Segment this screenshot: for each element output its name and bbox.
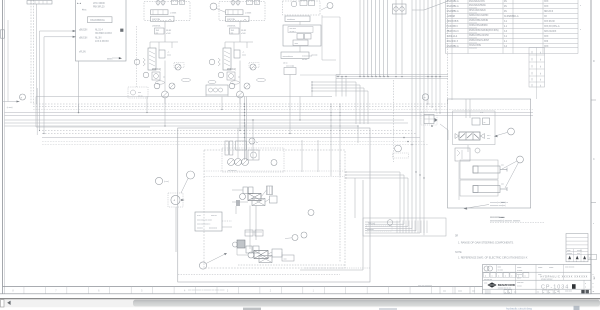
svg-text:NXX-33-3XX: NXX-33-3XX [544,31,557,33]
svg-text:xx-xxx: xx-xxx [517,274,522,276]
svg-text:xxxx xxxx: xxxx xxxx [565,291,572,293]
svg-text:xBUS1N: xBUS1N [79,38,88,40]
svg-text:▲▲: ▲▲ [77,2,82,5]
svg-text:xx: xx [540,73,542,75]
svg-text:xxxx-xxxx: xxxx-xxxx [469,17,477,19]
svg-text:xxxx-xxxx: xxxx-xxxx [469,12,477,14]
svg-text:XS4N8B1 A: XS4N8B1 A [447,10,459,13]
svg-text:xxx: xxx [532,78,534,81]
svg-text:x (xxxxxxx): x (xxxxxxx) [302,56,312,58]
svg-text:NU3XXB 3: NU3XXB 3 [447,25,459,28]
svg-text:x xx: x xx [480,112,483,114]
svg-text:xxx xxxxxxxxx x: xxx xxxxxxxxx x [197,224,211,226]
svg-text:xxxxxxxxx■■■■: xxxxxxxxx■■■■ [490,216,505,219]
svg-text:xxx x: xxx x [517,278,521,280]
svg-text:xxxxx: xxxxx [538,267,542,269]
svg-text:xxx xxxx-xxx xxxx: xxx xxxx-xxx xxxx [197,219,213,221]
svg-text:xxxxx: xxxxx [517,267,521,269]
svg-text:xFL3N: xFL3N [79,51,86,54]
svg-text:BENZFORD: BENZFORD [498,283,516,287]
svg-text:xx xxx: xx xxx [517,285,522,287]
svg-text:NOTE: NOTE [455,251,462,254]
svg-text:xx: xx [540,52,542,54]
svg-text:xxxxxxx(xxx)■■■(x.x: xxxxxxx(xxx)■■■(x.x [490,201,509,204]
svg-text:xx: xx [540,85,542,87]
svg-text:4N: 4N [504,1,507,3]
svg-text:4N: 4N [504,6,507,8]
svg-text:x: x [585,283,586,285]
svg-text:xxxx-xxxx: xxxx-xxxx [469,42,477,44]
svg-text:xxxxxxx: xxxxxxx [367,229,375,231]
svg-text:3B4XXXA 3: 3B4XXXA 3 [447,30,460,33]
svg-text:xxx xxxx: xxx xxxx [290,28,296,30]
svg-text:xx xxxx: xx xxxx [498,270,504,272]
svg-text:xxx: xxx [532,58,534,61]
svg-text:NN3-33 3: NN3-33 3 [544,11,554,13]
svg-text:xx: xx [540,66,542,68]
svg-text:[ x: [ x [515,291,517,293]
svg-text:xxxx-xxxx: xxxx-xxxx [469,47,477,49]
svg-text:x: x [585,287,586,289]
svg-text:xxxx-xxxx: xxxx-xxxx [469,32,477,34]
svg-text:xxxxxxxlxxxx: xxxxxxxlxxxx [283,56,293,58]
svg-text:x: x [593,274,594,276]
svg-text:x: x [505,292,506,294]
svg-text:78L(xx): 78L(xx) [368,224,375,226]
svg-text:xx: xx [593,291,595,293]
svg-text:xxx xxx xxxxxxx: xxx xxx xxxxxxx [418,285,433,287]
svg-text:1. RANGE OF OAW STEERING:COMPO: 1. RANGE OF OAW STEERING:COMPONENTS. [458,241,514,245]
svg-text:xxxx xx(x): xxxx xx(x) [286,66,294,68]
svg-text:xxx xxx xxx: xxx xxx xxx [484,279,492,281]
svg-text:xxxx: xxxx [484,282,487,284]
svg-text:xxxx: xxxx [567,250,571,252]
svg-text:xxl xxx xx: xxl xxx xx [228,170,237,172]
svg-text:(x xx): (x xx) [164,181,169,183]
svg-text:xx: xx [540,59,542,61]
svg-text:xxxxxxx: xxxxxxx [485,293,491,295]
svg-text:xxxxlxxxx: xxxxlxxxx [287,19,296,21]
svg-text:34.3N8N5N1-A: 34.3N8N5N1-A [504,15,519,18]
svg-text:xxx xxxx xxxxx xx xxxxxxx xxx: xxx xxxx xxxxx xx xxxxxxx xxx xxxx xxxxx [188,290,225,292]
svg-text:xxxxxx: xxxxxx [567,253,572,255]
svg-text:XXX 3N 3X: XXX 3N 3X [544,21,555,23]
svg-text:xxl xx: xxl xx [283,63,288,65]
svg-text:xBUS2N: xBUS2N [79,30,88,32]
svg-text:xxxx: xxxx [295,43,299,45]
svg-text:xx: xx [589,257,591,259]
svg-text:xxxx: xxxx [498,267,502,269]
svg-text:1133L1A 4: 1133L1A 4 [447,35,458,38]
svg-text:x/x: x/x [557,291,559,293]
svg-text:xxxx-xxxx: xxxx-xxxx [469,37,477,39]
svg-text:(xxxxxxx): (xxxxxxx) [209,227,217,229]
svg-text:hydraulic circuit dwg: hydraulic circuit dwg [506,307,532,310]
svg-text:xx: xx [540,79,542,81]
svg-text:xxx: xxx [532,65,534,68]
svg-text:DR: DR [455,236,459,238]
svg-text:x:x: x:x [537,291,539,293]
svg-text:xxx: xxx [532,51,534,54]
svg-text:xx xxxx: xx xxxx [517,270,522,272]
svg-text:+: + [173,199,175,203]
svg-text:xxxxx: xxxxx [549,267,553,269]
svg-text:-NN5N8: -NN5N8 [447,15,456,18]
svg-text:XXX: XXX [544,36,549,38]
svg-text:x: x [543,292,544,294]
svg-text:xxxxxxxx xxxx xx. xxx: xxxxxxxx xxxx xx. xxx [498,287,512,289]
svg-text:xxxx xxxxxxx: xxxx xxxxxxx [565,266,574,268]
svg-text:1. REFERENCE DWG. OF ELECTRIC: 1. REFERENCE DWG. OF ELECTRIC CIRCUIT:N3… [458,255,528,259]
svg-text:4NN-N3LN-XXN: 4NN-N3LN-XXN [469,1,485,3]
svg-text:PBX 8FL20: PBX 8FL20 [93,5,105,8]
svg-text:333XXXB 8: 333XXXB 8 [447,20,459,23]
svg-text:xxxx-xxxx: xxxx-xxxx [469,22,477,24]
svg-text:3N1-5NC 3: 3N1-5NC 3 [447,40,459,43]
svg-text:(x xxx): (x xxx) [7,107,13,109]
svg-text:XXX: XXX [544,1,549,3]
svg-text:XS4N3B1 A: XS4N3B1 A [447,5,459,8]
svg-text:xxxx-xxxx: xxxx-xxxx [469,27,477,29]
svg-text:XS4N1B1 A: XS4N1B1 A [447,0,459,3]
svg-text:x: x [549,292,550,294]
svg-text:4N: 4N [504,11,507,13]
svg-text:HYDRAULIC XXXXX XXXXXX: HYDRAULIC XXXXX XXXXXX [541,275,588,278]
svg-text:x: x [509,292,510,294]
svg-text:x: x [593,283,594,285]
svg-text:xxx: xxx [532,84,534,87]
svg-text:xxx: xxx [501,164,504,166]
svg-text:xxxx-xxxx: xxxx-xxxx [469,7,477,9]
svg-text:xxxxxxxx xxxx(xx): xxxxxxxx xxxx(xx) [490,205,506,207]
svg-text:xx: xx [484,122,486,124]
svg-text:XN 8NN3 1X3X3: XN 8NN3 1X3X3 [95,32,112,35]
svg-text:XXAXXBXXA: XXAXXBXXA [90,18,105,22]
svg-text:XS4N3B1 A: XS4N3B1 A [447,45,459,48]
svg-text:1XX 3 3XXXX: 1XX 3 3XXXX [95,40,109,43]
svg-text:LTD. DIDD: LTD. DIDD [93,1,105,5]
svg-text:xxx: xxx [532,72,534,75]
svg-text:xx xxx x: xx xxx x [290,31,296,33]
svg-text:xxx: xxx [501,183,504,185]
svg-text:XXX,XX,XXN--A: XXX,XX,XXN--A [544,25,560,28]
svg-text:xx x: xx x [577,253,580,255]
svg-text:-(xxxxx): -(xxxxx) [311,55,318,57]
svg-text:xxxx xxx: xxxx xxx [517,282,523,284]
svg-text:XXX: XXX [544,6,549,8]
svg-text:xxxxxxxxxx(xx) xxxxxxx. xxxxxx: xxxxxxxxxx(xx) xxxxxxx. xxxxxxx [490,221,521,223]
svg-text:XXX: XXX [544,46,549,48]
svg-text:XXXX XXXX: XXXX XXXX [541,279,553,281]
